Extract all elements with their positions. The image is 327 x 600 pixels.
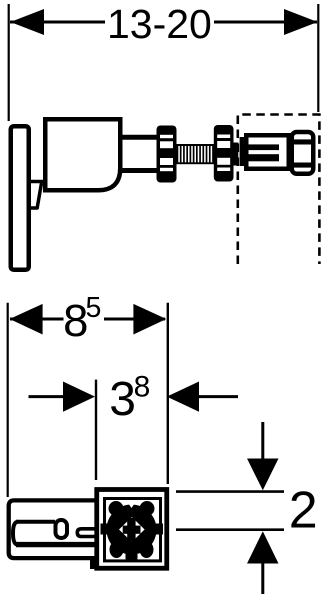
flange tab bottom-left xyxy=(90,560,98,570)
dimension line 13-20 left segment xyxy=(10,21,105,24)
dimension line 13-20 right segment xyxy=(214,21,317,24)
thread stripes xyxy=(178,146,212,162)
knob cross xyxy=(123,518,141,542)
end cap band upper xyxy=(294,139,312,144)
valve head body xyxy=(246,135,289,169)
fork slot upper edge xyxy=(16,520,55,524)
threaded rod band xyxy=(176,144,215,164)
head coupler block xyxy=(240,137,245,166)
latch link lower xyxy=(29,206,38,210)
flange square inner xyxy=(105,499,161,561)
svg-text:2: 2 xyxy=(289,481,318,539)
push rod top edge xyxy=(120,135,158,140)
svg-text:3: 3 xyxy=(109,373,136,426)
valve head slot lower xyxy=(248,154,279,161)
fork u-turn left xyxy=(13,522,18,545)
arrowhead right of dim 13-20 xyxy=(284,9,318,35)
push rod bottom edge xyxy=(120,168,158,173)
valve end cap xyxy=(292,132,314,174)
extension line mid of dim 38 xyxy=(95,380,97,480)
dimension line 85 right segment xyxy=(104,318,165,321)
arrowhead left of dim 13-20 xyxy=(10,9,44,35)
hairpin hook xyxy=(77,529,96,537)
extension line lower of dim 2 xyxy=(176,528,284,531)
valve head right wall xyxy=(287,133,293,171)
svg-text:5: 5 xyxy=(86,292,102,324)
nut 1 body xyxy=(157,126,177,183)
nut 1 slots xyxy=(160,135,173,171)
knob gear body xyxy=(101,501,164,561)
extension line right of dim 13-20 xyxy=(317,4,319,112)
arrowhead right of dim 85 xyxy=(133,304,166,335)
latch link upper xyxy=(29,180,45,184)
nut 2 body xyxy=(214,125,234,182)
dashed housing box xyxy=(238,115,320,265)
latch diagonal xyxy=(37,183,42,209)
arrowhead left of dim 85 xyxy=(10,304,43,335)
nut 2 slots xyxy=(217,135,230,172)
valve head slot upper xyxy=(248,144,279,150)
extension line left of dim 13-20 xyxy=(8,4,10,121)
fork clip outer contour xyxy=(9,500,96,558)
knob top notch xyxy=(128,503,135,508)
dimension line 85 left segment xyxy=(10,318,64,321)
svg-text:13-20: 13-20 xyxy=(107,1,212,47)
fork finger tip ring xyxy=(56,520,68,538)
dim 2 lower tail xyxy=(261,563,264,594)
fork finger line xyxy=(16,542,96,547)
extension line upper of dim 2 xyxy=(176,490,284,493)
connector stub xyxy=(234,143,239,166)
svg-text:8: 8 xyxy=(134,371,151,404)
flange square outer xyxy=(97,490,167,569)
extension line right of dim 85 / 38 xyxy=(167,303,169,484)
dimension tail line 38 left xyxy=(29,395,66,398)
actuator body xyxy=(45,119,120,190)
arrowhead right of dim 38 (pointing left) xyxy=(167,382,199,412)
arrowhead lower of dim 2 (pointing up) xyxy=(247,531,279,563)
arrowhead left of dim 38 (pointing right) xyxy=(63,382,95,412)
extension line left of dim 85 xyxy=(7,303,9,497)
dimension tail line 38 right xyxy=(199,395,238,398)
dim 2 upper tail xyxy=(261,422,264,460)
lever plate xyxy=(11,126,29,270)
arrowhead upper of dim 2 (pointing down) xyxy=(247,459,279,491)
end cap band lower xyxy=(294,163,312,168)
knob white diamond xyxy=(119,517,145,542)
